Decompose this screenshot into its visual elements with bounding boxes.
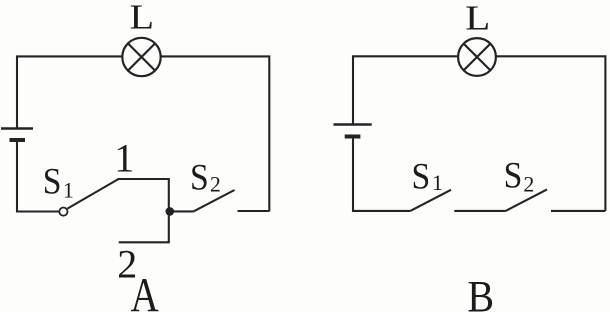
svg-text:S: S [43,160,62,202]
battery (circuit A) long plate [1,127,33,129]
wire: S2 right contact (circuit A) [238,210,270,212]
junction node dot (circuit A) [166,207,175,216]
lamp L (circuit B) [458,38,496,76]
wire: circuit B top-left segment [353,56,458,124]
wire: circuit B left lower segment [353,139,410,211]
battery (circuit B) long plate [334,123,372,125]
svg-text:S: S [190,156,209,198]
battery (circuit A) short thick plate [10,138,26,142]
wire: circuit B top-right segment [496,56,606,211]
wire: circuit A top-left segment [17,56,122,128]
svg-text:L: L [130,0,155,37]
svg-text:S: S [412,155,431,197]
svg-text:2: 2 [210,172,221,197]
switch S1 blade (circuit B) [410,190,451,211]
wire: circuit A left lower segment [17,142,59,212]
battery (circuit B) short thick plate [345,135,361,139]
svg-text:1: 1 [432,170,443,195]
wire: vertical contact link through node (circuit A) [168,178,170,242]
wire: middle segment between S1 and S2 (circuit B) [454,210,505,212]
svg-text:L: L [465,0,490,38]
switch S2 blade (circuit B) [506,189,547,211]
wire: S2 right contact segment (circuit B) [551,210,605,212]
contact 1 line (circuit A) [118,178,169,180]
svg-text:A: A [130,267,158,312]
svg-text:2: 2 [523,172,534,197]
switch S1 pole circle (circuit A) [59,208,67,216]
svg-text:1: 1 [63,178,74,203]
contact 2 line (circuit A) [119,241,170,243]
svg-text:S: S [504,154,523,196]
lamp L (circuit A) [122,38,160,76]
svg-text:1: 1 [114,135,134,180]
svg-text:B: B [467,273,494,312]
wire: circuit A top-right segment [161,56,270,211]
wire: node to S2 pivot (circuit A) [169,210,194,212]
switch S1 blade (circuit A) [67,179,118,209]
switch S2 blade (circuit A) [194,190,235,211]
